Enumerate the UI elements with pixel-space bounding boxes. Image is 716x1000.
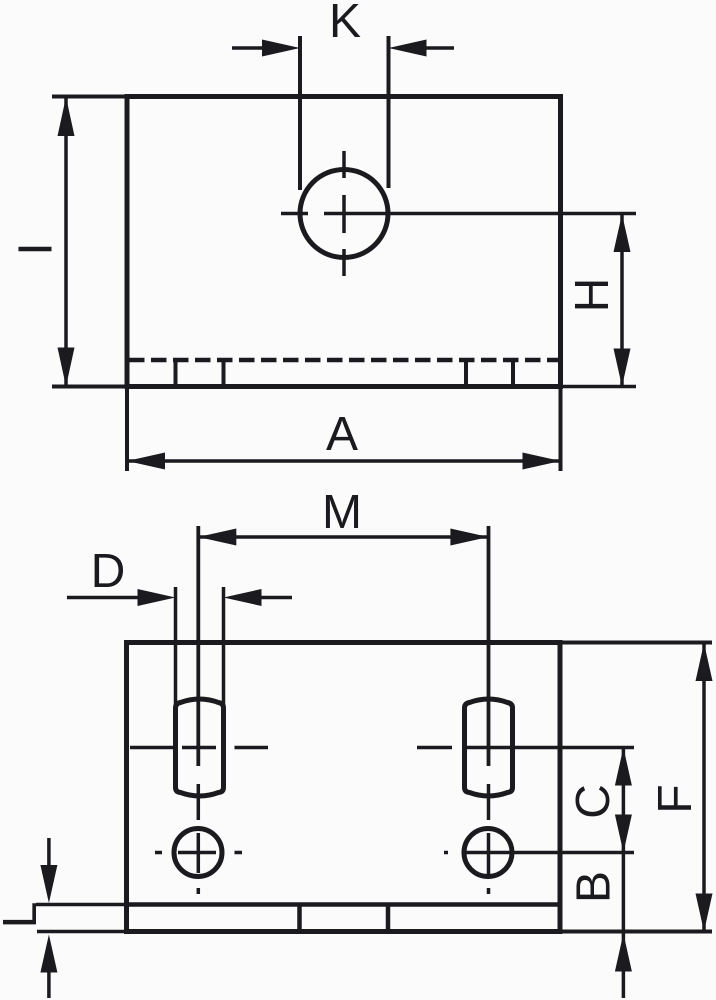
- dimension L upper tail: [47, 838, 51, 866]
- dimension A extension line left: [125, 389, 129, 471]
- dimension F arrow bottom: [696, 894, 713, 932]
- dimension M line: [198, 535, 488, 539]
- label C (rotated): [575, 786, 609, 816]
- dimension K line left tail: [232, 46, 264, 50]
- dimension D line left tail: [67, 596, 139, 600]
- notch line left a: [174, 361, 178, 385]
- label H (rotated): [575, 282, 608, 309]
- slot left horizontal center line: [130, 746, 268, 750]
- notch line right a: [464, 361, 468, 385]
- label L (rotated): [3, 903, 36, 924]
- label K: [333, 4, 361, 37]
- dimension B line: [622, 853, 626, 932]
- dimension L arrow top (outside, pointing down): [40, 865, 57, 903]
- dimension K extension line left: [298, 36, 302, 190]
- slot left: [176, 699, 224, 796]
- hole circle: [300, 170, 388, 258]
- notch line right b: [511, 361, 515, 385]
- hole horizontal center line + H top extension: [281, 212, 636, 216]
- label M: [326, 495, 358, 528]
- circle right center line + C/B extension: [444, 833, 634, 894]
- dimension A arrow right: [523, 453, 561, 470]
- bottom view body outline: [127, 643, 561, 932]
- top view body outline: [127, 97, 561, 387]
- dimension H arrow top: [614, 214, 631, 252]
- dimension F line: [702, 643, 706, 932]
- dimension I arrow bottom: [58, 348, 75, 387]
- dimension H line: [620, 214, 624, 387]
- slot left vertical center line lower segments: [197, 784, 201, 820]
- label F (rotated): [658, 786, 691, 809]
- dimension L arrow bottom (outside, pointing up): [40, 935, 57, 973]
- dimension D extension line right: [222, 587, 226, 706]
- dimension K arrow left: [262, 40, 300, 57]
- dimension M extension line right (runs into slot as center line): [487, 526, 491, 766]
- dimension A line: [127, 459, 561, 463]
- dimension L lower tail: [47, 970, 51, 998]
- dimension F arrow top: [696, 643, 713, 681]
- dimension D arrow right: [224, 589, 262, 606]
- dimension A extension line right: [559, 389, 563, 471]
- dimension D extension line left: [174, 587, 178, 706]
- dimension B arrow (outside, pointing up): [615, 934, 632, 972]
- bottom edge right extension (H extension line): [561, 385, 637, 389]
- base strip line: [127, 902, 561, 907]
- dimension I line: [64, 97, 68, 387]
- strip divider right: [386, 905, 391, 932]
- slot right horizontal center line + C top extension: [417, 746, 634, 750]
- label D: [95, 554, 123, 587]
- top edge right extension (F extension line): [560, 641, 712, 645]
- dimension K line right tail: [424, 46, 454, 50]
- bolt circle left: [174, 829, 222, 877]
- slot right vertical center line lower segments: [487, 784, 491, 820]
- dimension I arrow top: [58, 97, 75, 136]
- dimension C arrow top: [615, 748, 632, 786]
- dimension M extension line left (runs into slot as center line): [196, 526, 200, 766]
- label I (rotated): [18, 247, 51, 251]
- bottom edge left extension (I extension line): [52, 385, 127, 389]
- notch line left b: [222, 361, 226, 385]
- bottom edge left extension (L extension line): [37, 930, 127, 934]
- hidden dashed line: [129, 358, 558, 363]
- label B (rotated): [576, 874, 609, 900]
- slot right: [465, 699, 513, 796]
- label A: [326, 417, 358, 450]
- bottom edge right extension (F/B extension line): [560, 930, 712, 934]
- circle left center lines: [155, 833, 242, 894]
- dimension M arrow right: [450, 529, 488, 546]
- dimension C line: [622, 748, 626, 853]
- dimension K extension line right: [387, 36, 391, 188]
- dimension B lower tail: [622, 934, 626, 999]
- dimension H arrow bottom: [614, 349, 631, 387]
- strip divider left: [297, 905, 302, 932]
- dimension D line right tail: [260, 596, 293, 600]
- top edge left extension (I extension line): [52, 95, 127, 99]
- dimension A arrow left: [127, 453, 165, 470]
- strip top left extension (L extension line): [36, 903, 127, 907]
- dimension M arrow left: [198, 529, 236, 546]
- hole vertical center line: [342, 151, 346, 276]
- bolt circle right: [464, 829, 512, 877]
- dimension D arrow left: [138, 589, 176, 606]
- dimension C arrow bottom: [615, 815, 632, 853]
- dimension K arrow right: [389, 40, 427, 57]
